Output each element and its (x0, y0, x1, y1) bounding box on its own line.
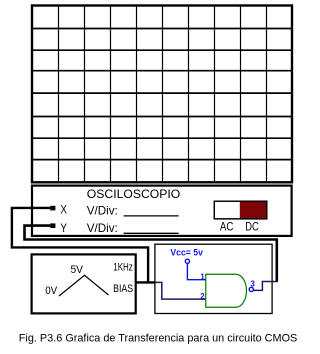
svg-text:3: 3 (251, 279, 256, 288)
DUT circuit box (155, 244, 272, 313)
svg-text:Y: Y (60, 221, 67, 235)
AC/DC switch (214, 201, 266, 219)
svg-text:0V: 0V (45, 285, 58, 297)
svg-text:DC: DC (245, 220, 258, 233)
svg-text:1: 1 (200, 272, 205, 281)
svg-text:V/Div:: V/Div: (87, 204, 118, 217)
wire gate output pin 3 (253, 282, 278, 291)
wire X probe (osc X to gate input node) (12, 208, 148, 283)
terminal Y (50, 223, 55, 228)
terminal X (50, 206, 55, 211)
oscilloscope graticule grid (32, 6, 292, 183)
NAND gate U1 body (206, 274, 247, 307)
triangle waveform symbol (59, 275, 109, 296)
svg-text:AC: AC (220, 220, 234, 233)
blank line Y (124, 232, 179, 234)
svg-text:5V: 5V (71, 264, 84, 276)
oscilloscope box U-OSC (32, 186, 292, 236)
svg-text:1KHz: 1KHz (113, 262, 133, 274)
svg-text:Vcc= 5v: Vcc= 5v (170, 247, 203, 257)
Vcc terminal circle (185, 259, 189, 263)
blank line X (124, 215, 179, 217)
svg-text:V/Div:: V/Div: (87, 222, 118, 235)
svg-text:BIAS: BIAS (113, 283, 133, 295)
output inversion bubble (249, 287, 253, 291)
wire BIAS output of generator (136, 281, 156, 283)
signal generator box G1 (32, 254, 136, 313)
wire Vcc to pin 1 (187, 263, 205, 279)
svg-text:OSCILOSCOPIO: OSCILOSCOPIO (87, 187, 180, 201)
wire Y probe (osc Y to gate output) (25, 226, 277, 282)
svg-text:Fig. P3.6 Grafica de Transfere: Fig. P3.6 Grafica de Transferencia para … (19, 332, 298, 344)
svg-text:2: 2 (200, 292, 205, 301)
svg-text:X: X (60, 202, 67, 216)
wire input node to pin 2 (156, 282, 206, 299)
